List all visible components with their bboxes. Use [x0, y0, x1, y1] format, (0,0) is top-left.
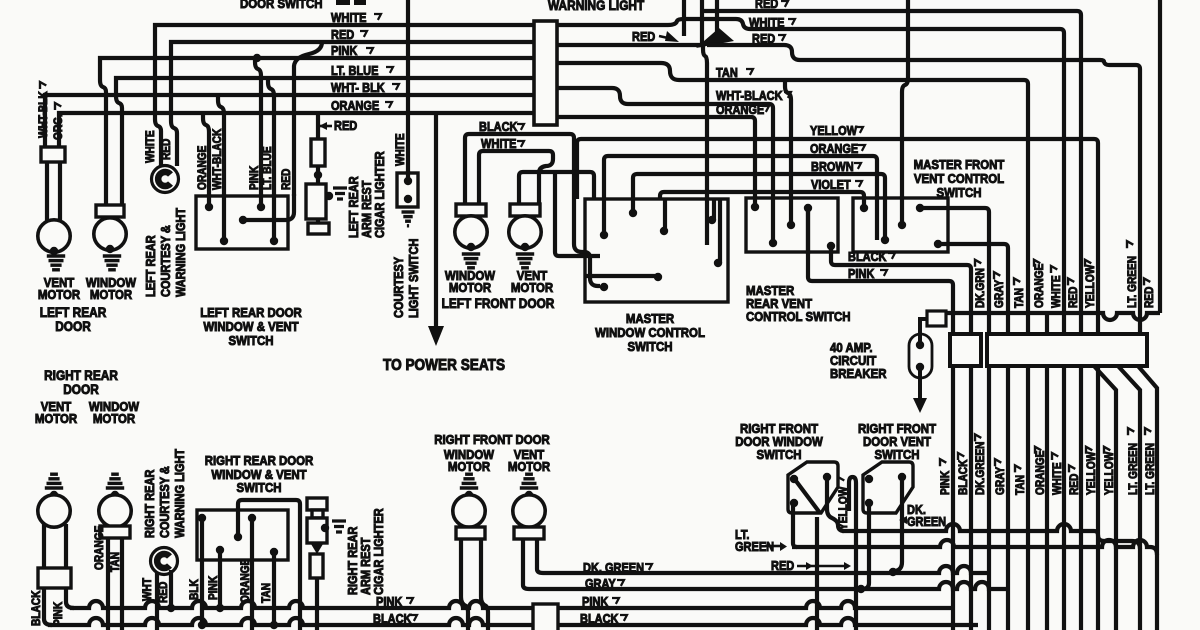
arrow tick BLACK link — [888, 253, 895, 259]
arrowhead red junction — [696, 28, 734, 48]
heat marks cigar lighter — [333, 188, 347, 199]
svg-text:BLACK: BLACK — [957, 459, 970, 495]
wire WHT-BLACK feed with jog — [557, 88, 773, 196]
terminal dot master window h — [654, 273, 662, 281]
wire TAN below RR switch — [272, 552, 276, 625]
svg-text:ARM REST: ARM REST — [359, 537, 373, 595]
arrowhead to power seats — [428, 326, 444, 346]
terminal dot front vent 5 — [916, 204, 924, 212]
svg-text:PINK: PINK — [331, 44, 358, 58]
terminal dot master window f — [714, 259, 722, 267]
terminal dot RF vent switch 2 — [898, 473, 906, 481]
wire junction vertical B — [700, 0, 704, 44]
switch body RIGHT FRONT DOOR WINDOW SWITCH — [788, 462, 838, 513]
wire ORANGE drop to LR door switch — [203, 113, 209, 207]
stub wire ORANGE into LR switch — [207, 194, 211, 207]
svg-text:MOTOR: MOTOR — [35, 411, 77, 426]
svg-text:CIGAR LIGHTER: CIGAR LIGHTER — [372, 508, 386, 595]
wire vertical feed to front vent switch — [902, 0, 908, 225]
connector rect LR vent motor — [41, 147, 65, 162]
motor circle LR window motor — [94, 218, 126, 250]
ground symbol RF window motor — [460, 474, 478, 488]
wire PINK corner into bottom bus — [66, 588, 74, 608]
arrow tick WHITE lf — [517, 141, 524, 147]
connector rect LR window motor — [96, 205, 124, 217]
wire junction vertical A — [682, 0, 686, 36]
junction dot RR window motor — [111, 491, 119, 499]
svg-text:SWITCH: SWITCH — [936, 185, 981, 200]
arrow tick RED upper right — [1068, 278, 1074, 285]
stub wire PINK out of rear vent switch — [806, 208, 810, 254]
svg-text:TAN: TAN — [260, 583, 273, 603]
wire ORANGE bus, drops to LR vent motor — [59, 113, 534, 147]
wire PINK bus, drops to LR window motor — [100, 58, 534, 205]
arrow tick ORANGE bus — [385, 102, 392, 108]
junction dot RED lamp wire on PINK bus — [167, 604, 175, 612]
wire breaker to feeder box — [920, 319, 927, 345]
pointer line RED junction — [659, 36, 668, 38]
svg-text:ORANGE: ORANGE — [1034, 451, 1047, 495]
wire link line into master window — [555, 172, 600, 256]
stub wire feed into front vent switch — [900, 196, 904, 225]
svg-text:RIGHT REAR DOOR: RIGHT REAR DOOR — [205, 453, 314, 468]
stub wire RED hook in LR switch — [243, 194, 294, 220]
wire TAN below connector bar — [1026, 366, 1030, 630]
svg-text:LT. GREEN: LT. GREEN — [1144, 443, 1157, 495]
switch box MASTER WINDOW CONTROL SWITCH — [585, 199, 728, 302]
stub wire PINK into LR switch — [259, 194, 263, 207]
arrow tick WHT-BLACK — [784, 92, 791, 98]
wire YELLOW run to right bus — [842, 524, 1140, 549]
wire VIOLET line to front vent switch — [660, 192, 864, 208]
svg-text:DK.GRN: DK.GRN — [974, 268, 987, 308]
svg-text:RIGHT REAR: RIGHT REAR — [346, 526, 360, 595]
svg-text:DK.GREEN: DK.GREEN — [974, 441, 987, 495]
junction dot RF vent motor — [525, 491, 533, 499]
wire GRAY from RF vent motor — [523, 539, 529, 589]
wire cigar lighter link — [316, 166, 320, 184]
wire GRAY below connector bar — [1006, 366, 1010, 630]
ground symbol courtesy switch — [402, 212, 415, 226]
arrow tick ORANGE upper right — [1034, 260, 1040, 267]
arrow tick VIOLET — [855, 181, 862, 187]
wire right vertical full height — [1158, 0, 1162, 313]
svg-text:MOTOR: MOTOR — [38, 287, 80, 302]
cigar lighter base — [308, 223, 329, 234]
wire ORANGE below RR window motor — [106, 538, 110, 630]
svg-text:MOTOR: MOTOR — [511, 280, 553, 295]
arrow tick BROWN — [854, 163, 861, 169]
svg-text:ORANGE: ORANGE — [93, 526, 106, 570]
door switch contact bar A — [336, 0, 350, 5]
svg-text:SWITCH: SWITCH — [228, 333, 273, 348]
arrow tick GRAY lower right — [995, 459, 1001, 466]
svg-text:TAN: TAN — [1013, 288, 1026, 308]
contact blade RF window switch — [796, 481, 820, 513]
svg-text:SWITCH: SWITCH — [627, 339, 672, 354]
terminal dot RR switch 2 — [248, 514, 256, 522]
connector feeder box — [950, 334, 981, 366]
arrowhead RED pointer 1 — [806, 562, 813, 570]
terminal dot RF vent switch 1 — [865, 475, 873, 483]
terminal dot LR switch 4 — [270, 237, 278, 245]
terminal dot LR switch 5 — [239, 216, 247, 224]
svg-text:CONTROL SWITCH: CONTROL SWITCH — [746, 309, 851, 324]
wire RED below connector bar — [1079, 366, 1083, 630]
svg-text:CIGAR LIGHTER: CIGAR LIGHTER — [373, 151, 387, 238]
junction dot PINK bus tap — [253, 54, 261, 62]
stub wire LT BLUE into LR switch — [272, 194, 276, 241]
arrow tick LT. GREEN lower right — [1145, 428, 1151, 435]
wire RED drop to LR door switch — [294, 42, 322, 196]
terminal dot master window b — [629, 209, 637, 217]
wire DK GREEN from RF vent switch — [895, 477, 902, 571]
bus wire BLACK bottom — [48, 618, 978, 625]
arrow tick ORANGE right — [858, 145, 865, 151]
svg-text:WARNING LIGHT: WARNING LIGHT — [173, 448, 187, 538]
arrow tick WHITE right — [788, 19, 795, 25]
courtesy light switch box — [397, 173, 418, 207]
arrow tick LT BLUE bus — [386, 67, 393, 73]
wire WHT-BLK bus, drops to LR vent motor — [45, 95, 534, 147]
svg-text:RED: RED — [331, 28, 354, 42]
svg-text:MASTER FRONT: MASTER FRONT — [914, 157, 1005, 172]
svg-text:LIGHT SWITCH: LIGHT SWITCH — [407, 239, 421, 318]
feeder box small — [927, 311, 946, 326]
ground symbol RR vent motor — [45, 474, 63, 488]
svg-text:RED: RED — [1067, 286, 1080, 308]
ground symbol LR vent motor — [47, 256, 65, 270]
svg-text:WHITE: WHITE — [144, 130, 157, 163]
arrow tick WHT-BLK left — [40, 82, 46, 89]
arrow tick RED upper right — [1144, 278, 1150, 285]
stub wire WHT-BLACK into LR switch — [222, 194, 226, 241]
RR cigar lighter neck — [312, 510, 323, 518]
RR cigar lighter top cap — [307, 498, 327, 510]
svg-text:RIGHT FRONT DOOR: RIGHT FRONT DOOR — [434, 432, 550, 447]
arrow tick GRAY — [617, 580, 624, 586]
stub wire junction drop in master window — [705, 197, 709, 245]
terminal dot courtesy switch top — [404, 177, 412, 185]
svg-text:WARNING LIGHT: WARNING LIGHT — [548, 0, 644, 13]
terminal dot front vent 1 — [860, 204, 868, 212]
arrow tick TAN upper right — [1014, 278, 1020, 285]
tall connector block center — [534, 21, 557, 125]
wire RED top-right bus — [704, 11, 1081, 334]
junction dot cigar lighter — [314, 171, 322, 179]
arrow tick RED lower right — [1069, 465, 1075, 472]
svg-text:COURTESY &: COURTESY & — [158, 466, 172, 538]
arrow tick PINK link — [880, 270, 887, 276]
svg-text:LEFT REAR: LEFT REAR — [144, 235, 158, 297]
courtesy lamp right rear — [151, 548, 178, 575]
pointer line RED cigar — [320, 125, 332, 128]
arrowhead LT GREEN pointer — [780, 542, 787, 551]
arrow tick PINK bus — [366, 48, 373, 54]
arrow tick WHT-BLK bus — [392, 84, 399, 90]
arrow tick YELLOW lower right — [1086, 447, 1092, 454]
svg-text:LEFT REAR DOOR: LEFT REAR DOOR — [200, 305, 302, 320]
terminal dot rear vent 2 — [769, 239, 777, 247]
switch box MASTER FRONT VENT CONTROL SWITCH — [853, 198, 948, 252]
wire DK GRN from front vent switch — [920, 208, 989, 334]
wire junction vertical C — [715, 0, 719, 35]
door switch contact bar B — [354, 0, 366, 5]
wire RED hairpin between switches — [849, 477, 856, 630]
terminal dot LR switch 3 — [257, 203, 265, 211]
arrowhead RED pointer 2 — [844, 562, 851, 570]
arrow tick DK.GREEN lower right — [975, 434, 981, 441]
svg-text:YELLOW: YELLOW — [1084, 264, 1097, 308]
svg-text:WINDOW & VENT: WINDOW & VENT — [203, 319, 299, 334]
svg-text:VIOLET: VIOLET — [811, 178, 851, 192]
motor circle LR vent motor — [38, 220, 70, 252]
wire ORANGE stub above bar — [1045, 313, 1049, 334]
contact dot cigar lighter — [325, 192, 333, 200]
terminal dot front vent 3 — [881, 236, 889, 244]
arrowhead RED cigar pointer — [319, 122, 327, 130]
arrow tick RED top-right — [781, 1, 788, 7]
motor circle RR vent motor — [38, 495, 70, 527]
wire DK GREEN from RF vent motor — [537, 539, 543, 573]
cigar lighter body — [306, 184, 326, 219]
svg-text:WHT-BLACK: WHT-BLACK — [211, 129, 224, 190]
terminal dot RR switch 1 — [198, 514, 206, 522]
terminal dot rear vent 1 — [751, 203, 759, 211]
svg-text:MASTER: MASTER — [626, 311, 674, 326]
svg-text:BLACK: BLACK — [848, 250, 887, 264]
wire BLACK corner into bottom bus — [44, 588, 52, 625]
junction dot PINK wire on PINK bus — [216, 604, 224, 612]
wire BROWN line to front vent switch — [633, 174, 885, 240]
svg-text:RED: RED — [755, 0, 778, 11]
junction dot on DK GREEN line — [889, 568, 897, 576]
svg-text:YELLOW: YELLOW — [1085, 451, 1098, 495]
switch box RIGHT REAR DOOR WINDOW & VENT SWITCH — [197, 510, 288, 560]
svg-text:WHT: WHT — [141, 578, 154, 601]
svg-text:PINK: PINK — [582, 595, 609, 609]
arrow tick YELLOW — [856, 127, 863, 133]
terminal dot RF vent switch 3 — [865, 499, 873, 507]
svg-text:TO POWER SEATS: TO POWER SEATS — [383, 357, 505, 374]
wire LR vent motor body left — [45, 162, 49, 221]
arrow tick DK GREEN — [645, 564, 652, 570]
svg-text:PINK: PINK — [376, 595, 403, 609]
svg-text:GRAY: GRAY — [585, 577, 616, 591]
motor circle LF window motor — [455, 216, 487, 248]
arrowhead DK GREEN pointer — [899, 516, 907, 524]
svg-text:ORANGE: ORANGE — [810, 142, 858, 156]
svg-text:GRAY: GRAY — [993, 279, 1006, 308]
stub wire BROWN into front vent switch — [883, 196, 887, 240]
pointer line RED — [797, 565, 849, 568]
svg-text:LEFT REAR: LEFT REAR — [347, 176, 361, 238]
stub wire ORANGE into front vent switch — [875, 196, 879, 240]
svg-text:PINK: PINK — [248, 166, 261, 190]
wire TAN feed with jog — [557, 63, 1028, 334]
wire RED drop RF window switch — [815, 517, 819, 630]
switch box LEFT REAR DOOR WINDOW & VENT SWITCH — [196, 196, 288, 249]
svg-text:DOOR: DOOR — [63, 381, 99, 397]
connector rect RF vent motor — [514, 527, 544, 539]
svg-text:WHT-BLACK: WHT-BLACK — [716, 89, 783, 103]
wire TAN below RR window motor — [120, 538, 124, 630]
terminal dot LR switch 1 — [205, 203, 213, 211]
motor circle LF vent motor — [509, 216, 541, 248]
terminal dot RR switch 3 — [234, 533, 242, 541]
svg-text:YELLOW: YELLOW — [810, 124, 858, 138]
svg-text:TAN: TAN — [1014, 475, 1027, 495]
wire ORANGE line to front vent switch — [604, 156, 877, 240]
svg-text:MOTOR: MOTOR — [448, 459, 490, 474]
terminal dot front vent 6 — [934, 240, 942, 248]
terminal dot front vent 4 — [898, 221, 906, 229]
wire main red drop to master switch — [703, 45, 707, 245]
svg-text:RED: RED — [334, 119, 357, 133]
wire BLACK left front door — [465, 134, 574, 204]
wire WHITE below connector bar — [1062, 366, 1066, 630]
wire in-box master window f — [718, 199, 722, 263]
stub wire WHT-BLACK into rear vent switch — [771, 196, 775, 243]
wire courtesy light switch feed from top — [406, 0, 410, 173]
wire LT GREEN-1 below bar diagonal — [1118, 366, 1140, 630]
svg-text:MOTOR: MOTOR — [449, 280, 491, 295]
wire from RF vent switch to GRAY — [862, 503, 869, 589]
contact dot RR cigar lighter — [321, 524, 329, 532]
terminal dot master window a — [600, 231, 608, 239]
wire BLACK link to feeder box — [831, 252, 971, 334]
svg-text:PINK: PINK — [207, 576, 220, 600]
wire ORANGE below RR switch — [250, 518, 254, 630]
terminal dot RF window switch 1 — [790, 475, 798, 483]
terminal dot master window c — [660, 227, 668, 235]
junction dot RF window motor — [465, 491, 473, 499]
terminal dot master window g — [600, 283, 608, 291]
svg-text:WHITE: WHITE — [1051, 462, 1064, 495]
wire LT GREEN from RF window switch — [793, 505, 797, 547]
svg-text:WHITE: WHITE — [1050, 275, 1063, 308]
svg-text:RED: RED — [157, 581, 170, 603]
wire PINK below connector bar — [951, 366, 955, 630]
arrow tick LT. GREEN lower right — [1128, 428, 1134, 435]
arrow tick YELLOW lower right — [1104, 447, 1110, 454]
svg-text:WHITE: WHITE — [481, 137, 517, 151]
svg-text:SWITCH: SWITCH — [874, 447, 919, 462]
wire WHITE bus upper-left, drops to courtesy lamp — [155, 19, 1064, 334]
svg-text:ARM REST: ARM REST — [360, 180, 374, 238]
svg-text:WARNING LIGHT: WARNING LIGHT — [174, 207, 188, 297]
connector box bottom center — [533, 604, 558, 630]
wire RED mid bus — [557, 43, 701, 47]
stub wire ORANGE into rear vent switch — [753, 196, 757, 207]
arrow tick YELLOW upper right — [1085, 260, 1091, 267]
wire in-box master window a — [602, 199, 606, 235]
wire GRAY run — [529, 582, 1008, 589]
ground symbol RF vent motor — [520, 474, 538, 488]
wire breaker arrow shaft — [918, 368, 922, 399]
wire RED bus upper-left, drops to courtesy lamp — [171, 42, 534, 166]
svg-text:MOTOR: MOTOR — [90, 287, 132, 302]
svg-text:YELLOW: YELLOW — [1103, 451, 1116, 495]
terminal dot breaker top — [916, 341, 924, 349]
svg-text:COURTESY: COURTESY — [392, 257, 406, 318]
svg-text:BLACK: BLACK — [580, 612, 619, 626]
terminal dot master window e — [703, 241, 711, 249]
svg-text:BROWN: BROWN — [811, 160, 854, 174]
wire RR vent motor right — [64, 524, 68, 568]
switch box MASTER REAR VENT CONTROL SWITCH — [746, 198, 838, 252]
terminal dot RR switch 5 — [270, 548, 278, 556]
wire LT BLUE bus, drops to LR window motor — [116, 78, 534, 205]
svg-text:PINK: PINK — [848, 267, 875, 281]
stub wire into courtesy switch — [406, 171, 410, 181]
arrow tick PINK bottom right — [612, 598, 619, 604]
junction dot RR vent motor — [50, 491, 58, 499]
circuit breaker 40 AMP capsule — [909, 334, 932, 378]
terminal dot breaker bottom — [916, 363, 924, 371]
wire loop from RR switch — [238, 500, 300, 630]
wire LT GREEN-2 below bar diagonal — [1138, 366, 1157, 630]
wire LR vent motor body right — [58, 162, 62, 221]
svg-text:TAN: TAN — [716, 66, 738, 80]
svg-text:RED: RED — [752, 32, 775, 46]
arrow tick RED second — [778, 35, 785, 41]
arrowhead breaker — [913, 398, 927, 413]
svg-text:RED: RED — [160, 138, 173, 160]
arrow tick WHITE upper right — [1051, 266, 1057, 273]
RR cigar lighter lower element — [310, 554, 323, 578]
bus wire PINK bottom — [70, 601, 953, 608]
terminal dot RF window switch 3 — [790, 499, 798, 507]
arrow tick WHITE bus — [374, 14, 381, 20]
svg-text:RIGHT REAR: RIGHT REAR — [143, 469, 157, 538]
svg-text:DK. GREEN: DK. GREEN — [583, 561, 644, 575]
wire in-box master window c — [663, 199, 667, 231]
bus wire y313 to connector — [946, 313, 1160, 320]
arrow tick BLACK bottom mid — [410, 615, 417, 621]
svg-text:MOTOR: MOTOR — [93, 411, 135, 426]
motor circle RR window motor — [99, 495, 131, 527]
connector bar main — [987, 334, 1147, 366]
svg-text:LEFT FRONT DOOR: LEFT FRONT DOOR — [442, 295, 555, 311]
terminal dot master window d — [708, 216, 716, 224]
svg-text:ORANGE: ORANGE — [239, 559, 252, 603]
terminal dot LR switch 2 — [220, 237, 228, 245]
wire RF window motor left jog — [461, 539, 468, 630]
arrow tick ORANGE lower right — [1035, 447, 1041, 454]
connector rect LF window motor — [456, 204, 486, 216]
wire in-box master window d — [712, 199, 716, 220]
wire LT GREEN run to right bus — [792, 540, 1157, 555]
wire YELLOW from RF window switch — [827, 477, 844, 531]
svg-text:GRAY: GRAY — [994, 466, 1007, 495]
svg-text:PINK: PINK — [939, 471, 952, 495]
svg-text:LT. BLUE: LT. BLUE — [261, 146, 274, 190]
connector rect LF vent motor — [510, 204, 540, 216]
svg-text:BLK: BLK — [188, 579, 201, 600]
svg-text:VENT CONTROL: VENT CONTROL — [914, 171, 1005, 186]
arrow tick BLACK bottom right — [620, 615, 627, 621]
svg-text:WHITE: WHITE — [749, 16, 785, 30]
wire PINK below RR switch — [218, 550, 222, 608]
terminal dot rear vent 3 — [787, 221, 795, 229]
svg-text:ORANGE: ORANGE — [716, 103, 764, 117]
wire RED from RR courtesy lamp — [169, 570, 173, 608]
switch body RIGHT FRONT DOOR VENT SWITCH — [863, 462, 913, 513]
pointer line LT GREEN — [765, 545, 780, 548]
wire ORANGE below connector bar — [1045, 366, 1049, 630]
wire LT BLUE drop to LR door switch — [268, 78, 274, 241]
